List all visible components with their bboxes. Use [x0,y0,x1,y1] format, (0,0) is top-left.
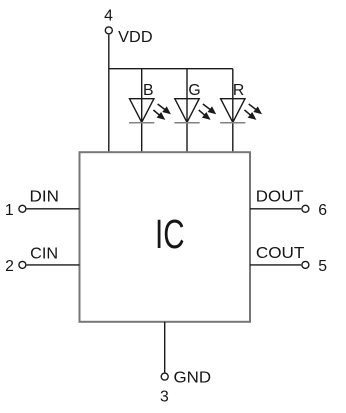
svg-text:3: 3 [160,388,169,405]
IC body U1 [80,152,251,322]
svg-text:6: 6 [318,202,327,219]
wire CIN [27,264,80,266]
svg-text:DIN: DIN [30,189,59,206]
LED R [220,99,262,123]
node COUT terminal (pin 5) [302,261,309,268]
svg-text:G: G [188,82,200,99]
wire GND vertical [164,322,166,373]
LED G [174,99,216,123]
svg-text:IC: IC [155,211,185,257]
wire LED G anode drop [186,69,188,153]
wire DOUT [250,208,301,210]
node VDD terminal (pin 4) [105,27,112,34]
svg-text:GND: GND [174,369,212,386]
svg-text:2: 2 [5,258,14,275]
wire LED B anode drop [141,69,143,153]
wire DIN [27,208,80,210]
svg-text:VDD: VDD [118,29,152,46]
node DOUT terminal (pin 6) [302,205,309,212]
svg-text:CIN: CIN [30,245,58,262]
svg-text:DOUT: DOUT [256,189,304,206]
svg-text:1: 1 [5,202,14,219]
node CIN terminal (pin 2) [19,261,26,268]
wire LED R anode drop [232,69,234,153]
svg-text:4: 4 [104,8,113,25]
wire VDD vertical [108,35,110,153]
svg-text:5: 5 [318,258,327,275]
svg-text:COUT: COUT [256,245,305,262]
node GND terminal (pin 3) [161,373,168,380]
svg-text:R: R [233,82,244,99]
svg-text:B: B [143,82,154,99]
wire COUT [250,264,301,266]
LED B [129,99,171,123]
node DIN terminal (pin 1) [19,205,26,212]
wire VDD bus horizontal [109,68,233,70]
